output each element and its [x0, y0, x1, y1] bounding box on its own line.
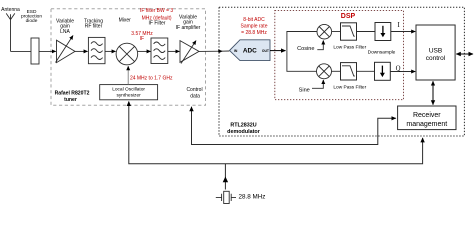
svg-text:Downsample: Downsample — [368, 50, 396, 56]
svg-text:DSP: DSP — [341, 13, 356, 20]
splitter wire to I mixer — [287, 32, 317, 51]
IF filter — [151, 38, 168, 64]
wire crystal to clock line — [224, 164, 226, 190]
wire IF amplifier to ADC — [199, 50, 222, 52]
svg-text:IF: IF — [140, 36, 144, 42]
wire LPF Q to downsample Q — [357, 70, 375, 72]
svg-text:Cosine: Cosine — [297, 46, 314, 52]
svg-text:USB: USB — [429, 47, 442, 54]
svg-text:Sample rate: Sample rate — [241, 24, 268, 30]
svg-text:Low Pass Filter: Low Pass Filter — [333, 85, 366, 91]
wire downsample I to USB control, label I — [391, 31, 415, 33]
wire downsample Q to USB control, label Q — [390, 71, 415, 73]
svg-text:OUT: OUT — [262, 49, 270, 53]
ADC block — [230, 40, 271, 61]
svg-text:diode: diode — [26, 18, 38, 24]
svg-text:Control: Control — [186, 87, 202, 93]
svg-text:ADC: ADC — [243, 48, 257, 55]
IF amplifier (variable gain) — [180, 41, 199, 63]
svg-text:IF Filter: IF Filter — [149, 21, 166, 27]
wire ADC out to splitter junction — [270, 50, 286, 52]
splitter wire to Q mixer — [287, 51, 317, 72]
svg-text:Q: Q — [396, 66, 401, 73]
Q mixer — [317, 64, 332, 79]
svg-text:8-bit ADC: 8-bit ADC — [243, 17, 265, 23]
wire LNA to tracking filter — [75, 50, 88, 52]
svg-text:management: management — [406, 121, 447, 128]
low pass filter Q — [341, 63, 357, 80]
svg-text:IF amplifier: IF amplifier — [176, 25, 201, 31]
svg-text:LNA: LNA — [60, 29, 70, 35]
low pass filter I — [341, 23, 357, 40]
svg-text:= 28.8 MHz: = 28.8 MHz — [241, 30, 267, 36]
mixer (RF mixer circle) — [116, 43, 138, 65]
I mixer — [317, 24, 332, 39]
svg-text:28.8 MHz: 28.8 MHz — [239, 193, 266, 200]
svg-text:Low Pass Filter: Low Pass Filter — [333, 44, 366, 50]
svg-text:I: I — [397, 22, 400, 29]
svg-text:tuner: tuner — [64, 97, 77, 103]
wire Q mixer to low pass filter Q — [332, 70, 341, 72]
USB to receiver management (double arrow) — [432, 81, 434, 105]
svg-text:Local Oscillator: Local Oscillator — [112, 87, 145, 93]
wire tracking filter to mixer — [105, 50, 116, 52]
wire LPF I to downsample I — [357, 31, 376, 33]
downsample I — [375, 23, 391, 41]
USB external bus (double arrow) — [456, 53, 473, 55]
wire IF filter to IF amplifier — [168, 50, 180, 52]
ESD protection diode — [31, 38, 39, 64]
svg-text:Rafael R820T2: Rafael R820T2 — [55, 91, 90, 97]
local oscillator synthesizer — [100, 85, 158, 100]
antenna — [6, 13, 15, 51]
wire ESD diode to LNA — [39, 50, 56, 52]
LNA amplifier (variable gain) — [57, 40, 76, 62]
crystal 28.8 MHz — [216, 191, 236, 203]
wire I mixer to low pass filter I — [332, 31, 341, 33]
svg-text:IF filter BW = 3: IF filter BW = 3 — [140, 8, 173, 14]
svg-text:IN: IN — [234, 49, 238, 53]
receiver management block — [398, 106, 456, 130]
svg-text:RTL2832U: RTL2832U — [230, 122, 256, 128]
svg-text:synthesizer: synthesizer — [116, 92, 141, 98]
control data bus wire (receiver management to tuner) — [192, 107, 396, 145]
svg-text:control: control — [426, 55, 446, 62]
svg-text:24 MHz to 1.7 GHz: 24 MHz to 1.7 GHz — [130, 76, 173, 82]
clock distribution wire (crystal to LO and demodulator) — [129, 102, 423, 164]
svg-text:RF filter: RF filter — [85, 24, 103, 30]
svg-text:data: data — [190, 94, 200, 100]
tuner enclosure (Rafael R820T2 dashed box) — [51, 9, 206, 106]
wire mixer to IF filter — [138, 50, 151, 52]
tracking RF filter — [88, 37, 105, 63]
wire cosine to I mixer — [317, 41, 323, 50]
downsample Q — [375, 62, 391, 80]
wire sine to Q mixer — [312, 80, 323, 88]
svg-text:demodulator: demodulator — [227, 129, 261, 135]
USB control block — [416, 25, 455, 80]
wire LO synthesizer to mixer — [127, 66, 129, 84]
svg-text:Mixer: Mixer — [119, 17, 132, 23]
wire antenna to ESD diode — [11, 50, 32, 52]
svg-text:Receiver: Receiver — [413, 112, 441, 119]
DSP enclosure (dotted box) — [275, 11, 404, 100]
svg-text:Sine: Sine — [299, 88, 310, 94]
svg-text:Antenna: Antenna — [1, 7, 20, 13]
demodulator enclosure (RTL2832U dotted box) — [219, 7, 464, 136]
